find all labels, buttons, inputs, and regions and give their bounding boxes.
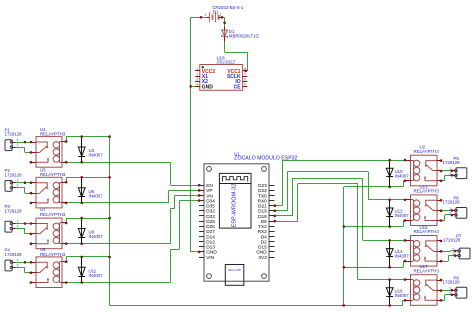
diode U16 IN4007 [389,280,391,296]
svg-text:IN4007: IN4007 [395,173,410,178]
svg-text:IN4007: IN4007 [89,153,104,158]
svg-text:1729128: 1729128 [5,252,23,257]
svg-text:1729128: 1729128 [443,200,461,205]
wire relay to connector P8 pin1 [441,290,447,292]
svg-text:1: 1 [17,179,19,183]
micro USB connector [225,265,244,286]
wire battery B1 pin1 to GND rail [191,17,207,19]
diode U8 IN4007 [81,218,83,238]
svg-text:2: 2 [17,225,19,229]
svg-text:2: 2 [196,72,198,76]
relay U9 RELAYPTH3 [36,257,62,288]
wire connector P4 pin1 to relay [16,262,31,264]
diode U11 IN4007 [81,257,83,277]
svg-text:1: 1 [17,219,19,223]
svg-text:1729128: 1729128 [443,160,461,165]
svg-text:DS1302Z: DS1302Z [217,60,236,65]
connector P6 1729128 [456,208,467,219]
diode U6 IN4007 [81,177,83,197]
svg-text:IN4007: IN4007 [89,234,104,239]
wire net ESP32 D19 to relay U13 [275,210,288,212]
wire left relay 3 coil top to bus [66,218,68,223]
svg-text:GND: GND [202,84,214,90]
svg-text:1: 1 [17,258,19,262]
svg-text:RELAYPTH3: RELAYPTH3 [414,189,440,194]
svg-text:4: 4 [196,83,198,87]
wire net relay2 coil- to ESP32 VP [66,202,169,204]
svg-text:IN4007: IN4007 [395,254,410,259]
wire D1 cathode to DS1302 VCC1 [224,42,226,53]
wire connector P2 pin1 to relay [16,182,31,184]
wire to ESP32 GND pin [191,251,199,253]
svg-text:1: 1 [204,13,206,17]
svg-text:5: 5 [244,83,246,87]
wire left relay 2 coil top to bus [66,177,68,182]
wire right coil supply bus [343,187,345,306]
wire connector P1 pin2 to relay [16,147,25,149]
relay U13 RELAYPTH3 [411,195,438,226]
wire relay to connector P6 pin2 [441,220,445,222]
diode U14 IN4007 [389,240,391,256]
diode U3 IN4007 [81,137,83,157]
wire relay to connector P5 pin2 [441,180,445,182]
svg-text:1729128: 1729128 [5,132,23,137]
battery B1 CR2032-BS-6-1 [207,17,210,19]
svg-text:2: 2 [17,184,19,188]
wire left coil supply bus [109,137,111,306]
IC U18 DS1302Z [200,65,243,91]
wire connector P4 pin2 to relay [16,267,25,269]
svg-text:2: 2 [17,263,19,267]
svg-text:IN4007: IN4007 [395,213,410,218]
wire vertical GND net from battery to ESP32 GND [190,17,192,252]
diode D1 MBR0520LT1G [224,27,226,31]
relay U2 RELAYPTH3 [411,155,438,186]
svg-text:ESP-WROOM-32: ESP-WROOM-32 [231,184,237,228]
connector P2 1729128 [5,181,12,192]
wire battery B1 pin2 corner [222,17,225,19]
wire net relay1 coil- to ESP32 EN [66,162,171,164]
svg-text:RELAYPTH3: RELAYPTH3 [414,268,440,273]
svg-text:1729128: 1729128 [5,209,23,214]
svg-text:RELAYPTH3: RELAYPTH3 [40,252,66,257]
wire left relay 1 coil top to bus [66,137,68,142]
connector P5 1729128 [456,168,467,179]
ESP-WROOM-32 submodule [219,173,251,228]
wire net ESP32 D18 to relay U15 [275,215,293,217]
wire connector P1 pin1 to relay [16,142,31,144]
relay U15 RELAYPTH3 [411,236,438,267]
wire net ESP32 D21 to relay U2 [275,205,283,207]
wire stub to DS1302 GND [191,86,197,88]
wire connector P3 pin1 to relay [16,223,31,225]
svg-text:ZOCALO MODULO ESP32: ZOCALO MODULO ESP32 [234,155,297,161]
svg-text:RELAYPTH3: RELAYPTH3 [414,229,440,234]
diode U12 IN4007 [389,200,391,216]
svg-text:B1: B1 [213,10,219,15]
module U1 ZOCALO MODULO ESP32 [204,164,269,281]
svg-text:IN4007: IN4007 [89,193,104,198]
svg-text:1729128: 1729128 [443,237,461,242]
wire right relay 1 coil bottom to supply [344,186,404,188]
svg-text:RELAYPTH3: RELAYPTH3 [40,132,66,137]
svg-text:1: 1 [17,138,19,142]
svg-text:3V3: 3V3 [258,255,267,260]
wire net ESP32 D5 to relay U17 [275,221,298,223]
svg-text:RELAYPTH3: RELAYPTH3 [40,172,66,177]
antenna meander [223,177,248,182]
wire connector P2 pin2 to relay [16,187,25,189]
ESP32 pins [199,185,204,187]
connector P7 1729128 [459,248,470,259]
relay U17 RELAYPTH3 [411,275,438,306]
wire right relay 2 coil bottom to supply [344,226,404,228]
svg-text:7: 7 [244,72,246,76]
mounting holes [207,167,212,172]
svg-text:IN4007: IN4007 [89,273,104,278]
relay U5 RELAYPTH3 [36,177,62,208]
svg-text:IN4007: IN4007 [395,293,410,298]
wire relay to connector P6 pin1 [441,210,447,212]
svg-text:Micro USB: Micro USB [228,268,241,272]
diode U10 IN4007 [389,160,391,176]
svg-text:RELAYPTH3: RELAYPTH3 [40,212,66,217]
wire net relay4 coil- to ESP32 D34 [66,282,170,284]
svg-text:VIN: VIN [206,255,214,260]
wire bottom supply rail [110,305,403,307]
connector P3 1729128 [5,221,12,232]
wire relay to connector P7 pin1 [441,251,451,253]
svg-text:RELAYPTH3: RELAYPTH3 [414,149,440,154]
connector P1 1729128 [5,140,12,151]
wire relay to connector P7 pin2 [441,261,448,263]
wire left relay 4 coil top to bus [66,257,68,262]
connector P4 1729128 [5,260,12,271]
relay U7 RELAYPTH3 [36,218,62,249]
wire relay to connector P8 pin2 [441,300,445,302]
svg-text:6: 6 [244,78,246,82]
relay U4 RELAYPTH3 [36,137,62,168]
svg-text:1: 1 [196,67,198,71]
wire right relay 3 coil bottom to supply [344,267,404,269]
svg-text:1729128: 1729128 [443,280,461,285]
wire net relay3 coil- to ESP32 VN [66,243,170,245]
wire relay to connector P5 pin1 [441,170,447,172]
svg-text:2: 2 [17,143,19,147]
junction dots [200,16,203,19]
svg-text:3: 3 [196,78,198,82]
svg-text:1729128: 1729128 [5,172,23,177]
connector P8 1729128 [456,287,467,298]
wire connector P3 pin2 to relay [16,228,25,230]
wire right relay 4 coil bottom to supply [402,300,404,305]
svg-text:CE: CE [234,84,242,90]
svg-text:MBR0520LT1G: MBR0520LT1G [229,33,260,38]
